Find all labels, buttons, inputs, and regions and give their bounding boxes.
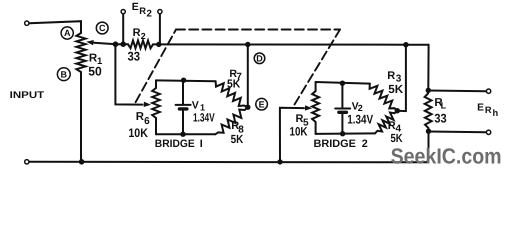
wire: bottom rail to bridge 2 wiper [280, 108, 304, 162]
battery V2 [335, 83, 350, 134]
dashed mechanical link: top [176, 29, 340, 31]
junction: V2 bottom [340, 131, 345, 136]
svg-text:2: 2 [362, 138, 368, 150]
resistor RL [425, 90, 432, 131]
junction: main wire tap [403, 42, 408, 47]
junction: RL bottom [426, 129, 431, 134]
wire: bridge 2 bottom rail [316, 132, 375, 135]
svg-text:h: h [493, 108, 499, 118]
wire: main wire to R3/R4 node [397, 45, 406, 111]
node B [57, 68, 70, 81]
junction: RL top [426, 88, 431, 93]
wire: bottom rail [29, 131, 428, 162]
junction: R3/R4 node [395, 108, 400, 113]
wire: bridge 1 top rail [156, 79, 216, 82]
wire: ER2 left vertical [122, 14, 124, 44]
terminal: ERh top [486, 89, 490, 93]
svg-text:R: R [139, 5, 146, 16]
terminal: ERh bottom [486, 130, 490, 134]
svg-text:33: 33 [434, 112, 446, 126]
wire: node D to node E [247, 45, 249, 108]
junction: wiper node [113, 41, 119, 47]
svg-text:1.34V: 1.34V [347, 113, 373, 127]
svg-text:10K: 10K [290, 125, 308, 139]
dashed mechanical link: left diagonal [136, 30, 176, 103]
svg-text:2: 2 [358, 103, 363, 113]
wire: bridge 2 top rail [316, 82, 370, 84]
junction: bridge 2 wiper feed [277, 159, 282, 164]
wire: R1 bottom to bottom rail [80, 72, 82, 162]
resistor R6 [152, 80, 160, 134]
wiper arrow of R5 [305, 105, 312, 110]
svg-text:1.34V: 1.34V [193, 110, 215, 124]
junction: node D [245, 42, 250, 47]
junction: V1 top [181, 78, 186, 83]
node C [96, 22, 108, 34]
svg-text:D: D [256, 54, 263, 64]
terminal: ER2 left [121, 10, 125, 14]
svg-text:BRIDGE: BRIDGE [155, 138, 195, 150]
terminal: ER2 right [158, 10, 162, 14]
svg-text:5K: 5K [231, 132, 244, 146]
svg-text:E: E [132, 1, 139, 13]
wire: ERh bottom branch [429, 131, 487, 134]
svg-text:5K: 5K [388, 82, 403, 96]
terminal: input bottom [25, 160, 29, 164]
resistor R3 [370, 84, 398, 111]
node E [256, 98, 268, 110]
svg-text:2: 2 [147, 8, 152, 19]
svg-text:E: E [477, 102, 484, 113]
resistor R7 [216, 81, 248, 107]
wire: right edge down [427, 45, 429, 91]
svg-text:C: C [99, 23, 106, 33]
svg-text:5K: 5K [227, 77, 241, 90]
resistor R5 [312, 82, 319, 134]
svg-text:R: R [136, 111, 144, 123]
wiper arrow of R1 [94, 43, 116, 44]
svg-text:A: A [64, 28, 71, 38]
resistor R1 (potentiometer body) [76, 33, 85, 72]
svg-text:R: R [133, 27, 141, 39]
wire: node C to bridge 1 wiper [115, 44, 142, 104]
node D [254, 53, 265, 64]
junction: ER2 right lead [156, 42, 161, 47]
wire: top-left input wire [29, 21, 81, 33]
wire: main top wire right part [153, 43, 429, 45]
svg-text:R: R [485, 105, 492, 115]
svg-text:SeekIC.com: SeekIC.com [391, 143, 502, 168]
junction: R1 bottom [79, 159, 85, 165]
svg-text:BRIDGE: BRIDGE [314, 138, 356, 150]
wiper arrow of R6 [144, 102, 151, 107]
svg-text:2: 2 [141, 31, 146, 41]
node A [61, 27, 73, 39]
svg-text:R: R [387, 70, 395, 82]
resistor R8 [215, 107, 247, 134]
svg-text:33: 33 [128, 49, 141, 63]
wire: main top wire [114, 43, 128, 45]
svg-text:50: 50 [88, 64, 102, 78]
junction: V2 top [340, 81, 345, 86]
svg-text:10K: 10K [128, 126, 148, 140]
svg-text:I: I [200, 138, 203, 150]
junction: ER2 left lead [120, 41, 126, 47]
junction: node E [245, 105, 250, 110]
svg-text:INPUT: INPUT [10, 90, 45, 101]
wire: ERh top branch [428, 90, 486, 93]
svg-text:B: B [61, 69, 68, 79]
terminal: input top [25, 21, 29, 25]
battery V1 [176, 81, 191, 135]
resistor R2 [128, 40, 153, 48]
svg-text:L: L [441, 100, 447, 110]
svg-text:E: E [259, 99, 265, 109]
dashed mechanical link: right diagonal [295, 30, 341, 105]
junction: V1 bottom [180, 132, 185, 137]
wire: ER2 right vertical [159, 14, 161, 44]
resistor R4 [375, 111, 397, 134]
wire: bridge 1 bottom rail [156, 133, 215, 135]
